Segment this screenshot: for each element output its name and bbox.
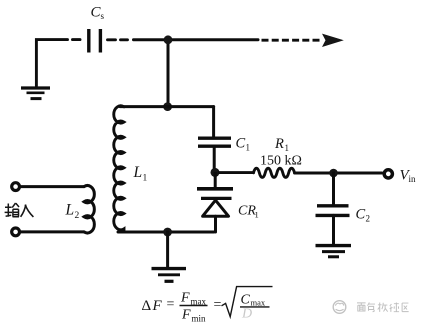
label shuru (input) hand-drawn CJK: [5, 203, 34, 217]
char bao: [367, 303, 375, 312]
svg-text:1: 1: [246, 143, 251, 153]
svg-text:C: C: [241, 293, 251, 308]
wire: input top to L2: [21, 185, 85, 188]
node J2: [163, 102, 172, 111]
terminal input bottom: [12, 228, 20, 236]
wire: dash left of Cs: [73, 38, 81, 41]
svg-text:C: C: [236, 136, 246, 152]
resistor R1: [254, 168, 295, 177]
svg-text:1: 1: [285, 143, 290, 153]
ground GND1 (top left): [21, 88, 50, 99]
wire: vertical from J1 down to tank top J2: [167, 40, 170, 107]
varactor diode CR1: triangle: [203, 200, 229, 216]
wire: J3 to resistor R1: [219, 171, 254, 174]
wire: solid into node J1 and onward: [134, 38, 259, 41]
char she: [390, 303, 399, 312]
svg-text:2: 2: [366, 214, 371, 224]
node J3: [211, 168, 220, 177]
wire: dashed arrow line to the right: [262, 39, 320, 42]
wire: tank top horizontal: [120, 105, 214, 108]
svg-text:min: min: [192, 314, 207, 324]
wire: CR1 anode down to tank bottom: [214, 216, 217, 232]
wire: vertical to bottom ground: [166, 232, 169, 267]
svg-text:C: C: [356, 207, 366, 223]
node J5 (tank bottom): [163, 228, 172, 237]
inductor L2: [84, 186, 94, 233]
svg-text:D: D: [241, 307, 252, 322]
svg-text:F: F: [181, 308, 191, 323]
svg-text:L: L: [65, 202, 75, 219]
node J4: [329, 169, 338, 178]
char mian: [357, 303, 366, 311]
wire: top-left horizontal with corner down: [36, 40, 67, 86]
svg-text:s: s: [101, 11, 105, 21]
wire: R1 to node J4 to terminal: [295, 172, 383, 175]
varactor diode CR1: top plate: [197, 172, 233, 198]
ground GND2 (bottom center): [152, 269, 187, 282]
wire: C2 down to ground: [332, 215, 335, 243]
ground GND3 (under C2): [316, 246, 352, 257]
wire: C1 bottom to node J3: [213, 146, 216, 172]
svg-text:L: L: [133, 164, 143, 181]
svg-text:=: =: [167, 297, 175, 312]
terminal Vin (open circle): [384, 170, 392, 178]
capacitor Cs: [89, 29, 101, 53]
wire: J4 down to C2: [332, 173, 335, 204]
svg-text:F: F: [180, 291, 190, 306]
char qu: [402, 303, 409, 312]
capacitor C2: [316, 206, 350, 216]
svg-text:2: 2: [75, 211, 80, 221]
arrowhead of dashed output line: [322, 34, 344, 47]
wire: tank bottom horizontal: [118, 231, 214, 234]
char ban: [378, 303, 388, 312]
capacitor C1: [198, 138, 231, 146]
wire: right branch down from tank top to C1: [212, 107, 215, 137]
svg-text:in: in: [409, 174, 417, 184]
terminal input top: [12, 183, 20, 191]
svg-text:max: max: [251, 298, 266, 308]
svg-text:F: F: [152, 298, 163, 314]
svg-text:1: 1: [143, 174, 148, 184]
svg-text:R: R: [274, 136, 284, 152]
node J1: [164, 35, 173, 44]
wire: L2 bottom to input bottom: [21, 230, 85, 233]
inductor L1: [114, 106, 124, 232]
svg-text:Δ: Δ: [142, 298, 152, 314]
wire: dashes right of Cs: [108, 38, 128, 41]
svg-text:=: =: [214, 298, 222, 313]
svg-text:1: 1: [255, 210, 259, 220]
formula: delta F = Fmax/Fmin = sqrt(Cmax/D): [142, 291, 266, 324]
watermark: breadboard community logo + text: [333, 301, 346, 314]
svg-text:150 kΩ: 150 kΩ: [260, 154, 302, 169]
